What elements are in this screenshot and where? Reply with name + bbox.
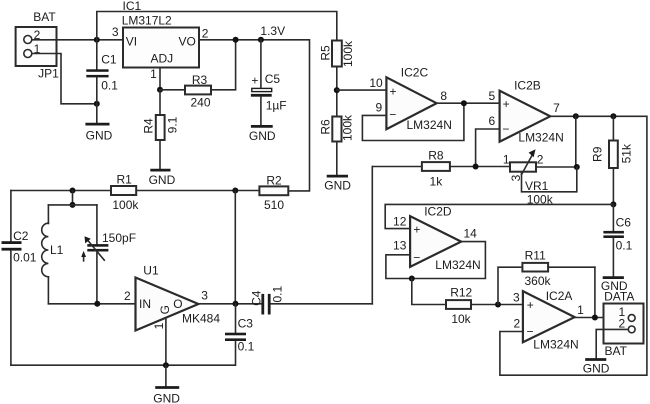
- resistor R4: [142, 90, 180, 169]
- svg-text:IC2C: IC2C: [401, 66, 429, 80]
- svg-text:BAT: BAT: [33, 10, 56, 24]
- wire IC2B - input to R8/VR1 node: [476, 129, 500, 167]
- ground under R6: [324, 176, 351, 192]
- svg-text:3: 3: [112, 25, 119, 39]
- svg-text:C6: C6: [616, 216, 632, 230]
- svg-text:ADJ: ADJ: [150, 51, 173, 65]
- node IC2D feedback junction to R12: [409, 276, 415, 282]
- op-amp IC2C: [369, 66, 452, 132]
- svg-text:IN: IN: [139, 297, 151, 311]
- svg-text:1: 1: [503, 153, 510, 167]
- node R5/R6 divider junction: [334, 87, 340, 93]
- svg-text:+: +: [251, 74, 258, 88]
- op-amp IC2D: [393, 205, 481, 272]
- svg-text:14: 14: [464, 227, 478, 241]
- svg-text:IC2A: IC2A: [546, 289, 573, 303]
- svg-text:G: G: [158, 305, 172, 314]
- wire U1 output: [198, 303, 261, 305]
- svg-text:0.01: 0.01: [13, 251, 37, 265]
- wire VR1 pin3 loop to output node: [522, 167, 577, 192]
- node IC2B output junction to VR1: [573, 113, 579, 119]
- wire tank drop: [72, 191, 74, 205]
- svg-text:1: 1: [150, 67, 157, 81]
- capacitor C3: [225, 304, 255, 354]
- svg-text:1: 1: [577, 303, 584, 317]
- svg-text:−: −: [502, 122, 509, 136]
- svg-text:1µF: 1µF: [266, 98, 287, 112]
- svg-text:GND: GND: [324, 179, 351, 193]
- svg-text:C2: C2: [13, 229, 29, 243]
- inductor L1: [42, 205, 64, 304]
- svg-text:+: +: [413, 223, 420, 237]
- svg-text:240: 240: [190, 95, 210, 109]
- svg-text:9.1: 9.1: [165, 116, 179, 133]
- ground under DATA connector: [583, 360, 610, 376]
- svg-text:VO: VO: [178, 35, 195, 49]
- wire R1R2 node down to U1 output node: [234, 191, 236, 304]
- wire IC2C output to IC2B + input: [437, 102, 500, 104]
- svg-text:0.1: 0.1: [101, 79, 118, 93]
- wire divider to IC2C + input: [337, 89, 387, 91]
- variable capacitor 150pF: [81, 205, 136, 304]
- resistor R11: [522, 248, 595, 288]
- capacitor C6: [603, 204, 632, 276]
- svg-text:12: 12: [393, 215, 407, 229]
- connector DATA/BAT: [604, 290, 644, 359]
- node IC2A output junction: [592, 315, 598, 321]
- svg-text:R2: R2: [266, 173, 282, 187]
- op-amp IC2B: [489, 79, 564, 145]
- wire DATA pin2 to ground: [596, 329, 628, 358]
- node U1 output junction: [233, 301, 239, 307]
- wire VR1 pin2 to output node: [536, 166, 577, 168]
- wire IC2A output to DATA pin 1: [575, 317, 629, 319]
- node bottom rail junction: [163, 362, 169, 368]
- potentiometer VR1: [503, 149, 554, 206]
- svg-text:C3: C3: [238, 316, 254, 330]
- node tank bottom junction: [94, 301, 100, 307]
- svg-text:10: 10: [369, 76, 383, 90]
- wire IC2B output to right edge and big loop to IC2A - input: [500, 116, 647, 375]
- svg-text:2: 2: [124, 289, 131, 303]
- svg-text:100k: 100k: [341, 40, 355, 67]
- node VI/C1/top-rail junction: [94, 37, 100, 43]
- svg-text:R6: R6: [318, 119, 332, 135]
- regulator IC1 LM317L2: [112, 0, 209, 81]
- svg-text:GND: GND: [86, 129, 113, 143]
- svg-text:2: 2: [202, 27, 209, 41]
- svg-text:R1: R1: [117, 172, 133, 186]
- node VR1 pin2 junction: [574, 164, 580, 170]
- wire tank bottom to U1 IN: [48, 303, 135, 305]
- radio IC U1 MK484: [124, 264, 220, 331]
- svg-text:+: +: [527, 298, 534, 312]
- resistor R5: [319, 40, 356, 67]
- ground under C6: [601, 278, 628, 294]
- svg-text:C1: C1: [101, 52, 117, 66]
- svg-text:100k: 100k: [341, 114, 355, 141]
- svg-text:LM324N: LM324N: [407, 118, 452, 132]
- node C5 junction on VO line: [258, 37, 264, 43]
- ground under C5: [249, 126, 276, 142]
- svg-text:0.1: 0.1: [616, 238, 633, 252]
- svg-text:−: −: [413, 251, 420, 265]
- svg-text:7: 7: [553, 101, 560, 115]
- node ADJ/R3/R4 junction: [157, 87, 163, 93]
- wire R9 bottom to IC2D + input: [385, 204, 613, 228]
- wire R8 left down to C4 output line: [371, 167, 373, 304]
- svg-text:R12: R12: [450, 286, 472, 300]
- ground under C1: [85, 124, 112, 143]
- svg-text:DATA: DATA: [604, 290, 634, 304]
- wire junction up to R11: [498, 267, 522, 304]
- svg-text:1k: 1k: [430, 174, 444, 188]
- svg-text:MK484: MK484: [182, 312, 220, 326]
- resistor R12: [446, 286, 523, 326]
- resistor R1: [111, 172, 259, 212]
- svg-text:R11: R11: [525, 248, 546, 262]
- svg-text:L1: L1: [50, 243, 64, 257]
- svg-text:3: 3: [513, 291, 520, 305]
- capacitor C1: [86, 40, 118, 123]
- wire U1 pin1 down to ground rail: [165, 318, 167, 365]
- wire IC2D feedback (pin 13 to pin 14): [386, 242, 486, 279]
- svg-text:0.1: 0.1: [238, 340, 255, 354]
- svg-text:0.1: 0.1: [271, 286, 285, 303]
- svg-text:9: 9: [376, 100, 383, 114]
- svg-text:510: 510: [264, 198, 284, 212]
- svg-text:IC2B: IC2B: [514, 79, 541, 93]
- wire VO output to 1.3V rail down to R2 right: [199, 40, 310, 191]
- wire IC2D node down to R12: [412, 279, 446, 305]
- resistor R8: [372, 149, 510, 189]
- svg-text:100k: 100k: [112, 198, 139, 212]
- wire main left rail (C2 top to R1): [11, 190, 111, 192]
- wire tank circuit top: [48, 204, 97, 206]
- svg-text:5: 5: [489, 89, 496, 103]
- svg-text:C5: C5: [265, 72, 281, 86]
- wire IC2C feedback (pin 9 to pin 8): [362, 103, 464, 140]
- svg-text:LM324N: LM324N: [435, 258, 480, 272]
- capacitor C4: [249, 286, 372, 315]
- svg-text:2: 2: [619, 316, 626, 330]
- svg-text:C4: C4: [249, 290, 263, 306]
- wire R5 to R6: [336, 67, 338, 117]
- node R9/C6/IC2D+ junction: [610, 201, 616, 207]
- wire junction to ground symbol: [165, 365, 167, 386]
- svg-text:2: 2: [537, 153, 544, 167]
- svg-text:VI: VI: [126, 35, 137, 49]
- connector JP1 (BAT): [16, 10, 60, 81]
- wire JP1 pin1 to ground node: [32, 54, 97, 104]
- node R1-R2 wire junction to U1 output: [232, 188, 238, 194]
- svg-text:6: 6: [489, 114, 496, 128]
- svg-text:8: 8: [440, 89, 447, 103]
- svg-text:IC1: IC1: [123, 0, 142, 13]
- svg-text:IC2D: IC2D: [424, 205, 452, 219]
- wire IC2B output down to VR1 pin 2: [575, 116, 577, 167]
- node tank top center junction: [70, 202, 76, 208]
- capacitor C2: [2, 191, 37, 366]
- svg-text:1.3V: 1.3V: [260, 24, 285, 38]
- ground bottom: [153, 388, 180, 404]
- svg-text:O: O: [173, 297, 182, 311]
- svg-text:GND: GND: [149, 173, 176, 187]
- resistor R9: [591, 116, 634, 204]
- svg-text:51k: 51k: [619, 143, 633, 163]
- svg-text:GND: GND: [153, 392, 180, 404]
- node R3 top junction on VO line: [233, 37, 239, 43]
- svg-text:150pF: 150pF: [102, 231, 136, 245]
- svg-text:360k: 360k: [524, 274, 551, 288]
- svg-text:R4: R4: [142, 118, 156, 134]
- node C1 bottom junction: [94, 101, 100, 107]
- resistor R3: [160, 40, 236, 110]
- svg-text:+: +: [389, 84, 396, 98]
- svg-text:R9: R9: [591, 146, 605, 162]
- node R12/R11/IC2A+ junction: [495, 302, 501, 308]
- svg-text:2: 2: [514, 316, 521, 330]
- svg-text:VR1: VR1: [525, 179, 549, 193]
- wire bottom ground rail: [11, 340, 236, 365]
- wire R6 to ground: [336, 142, 338, 175]
- wire JP1 pin2 to IC1 VI: [32, 39, 123, 41]
- svg-text:3: 3: [201, 289, 208, 303]
- resistor R2: [259, 173, 288, 212]
- svg-text:13: 13: [393, 239, 407, 253]
- svg-text:+: +: [503, 97, 510, 111]
- node R8/VR1/IC2B- junction: [473, 164, 479, 170]
- svg-text:1: 1: [152, 322, 166, 329]
- svg-text:LM317L2: LM317L2: [122, 14, 172, 28]
- wire top rail from VI junction to R5: [97, 12, 337, 41]
- svg-text:−: −: [389, 108, 396, 122]
- svg-text:JP1: JP1: [38, 67, 59, 81]
- svg-text:10k: 10k: [451, 312, 471, 326]
- ground under R4: [149, 170, 176, 187]
- node IC2C output junction: [461, 100, 467, 106]
- node tank top drop junction: [70, 188, 76, 194]
- capacitor C5 (polarized): [251, 40, 287, 125]
- resistor R6: [318, 114, 354, 142]
- svg-text:U1: U1: [143, 264, 159, 278]
- svg-text:BAT: BAT: [605, 344, 628, 358]
- wire R11 right down to IC2A output: [594, 267, 596, 317]
- svg-text:R5: R5: [319, 45, 333, 61]
- op-amp IC2A: [513, 289, 584, 352]
- svg-text:R3: R3: [192, 73, 208, 87]
- svg-text:LM324N: LM324N: [518, 131, 563, 145]
- svg-text:GND: GND: [249, 129, 276, 143]
- svg-text:R8: R8: [428, 149, 444, 163]
- wire ADJ pin down: [159, 68, 161, 90]
- node IC2B output junction to R9: [610, 113, 616, 119]
- svg-text:−: −: [526, 325, 533, 339]
- svg-text:LM324N: LM324N: [533, 338, 578, 352]
- svg-text:GND: GND: [583, 362, 610, 376]
